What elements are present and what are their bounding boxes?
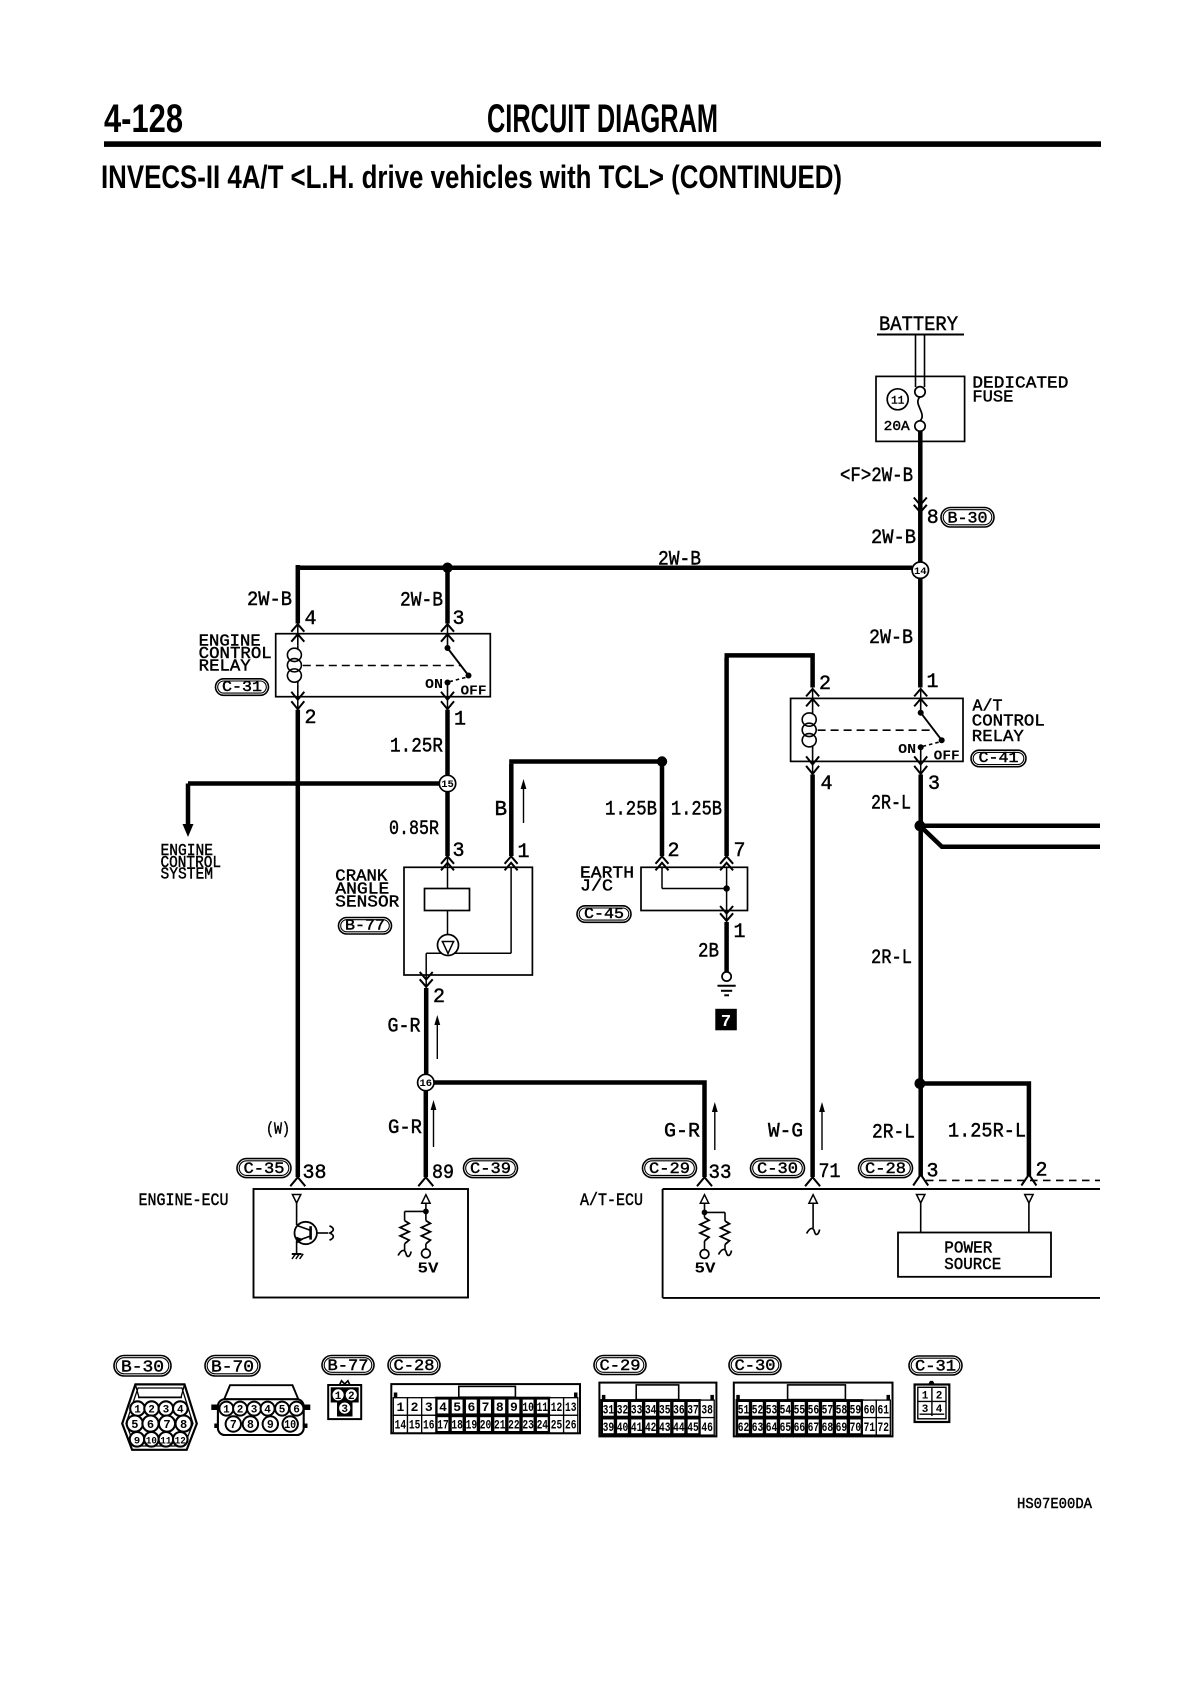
- svg-text:1: 1: [454, 709, 466, 732]
- svg-text:3: 3: [453, 608, 465, 631]
- svg-text:72: 72: [878, 1420, 890, 1435]
- svg-text:26: 26: [565, 1418, 577, 1433]
- svg-text:16: 16: [419, 1078, 432, 1090]
- svg-text:45: 45: [687, 1420, 699, 1435]
- svg-text:46: 46: [701, 1420, 713, 1435]
- svg-text:62: 62: [738, 1420, 750, 1435]
- svg-text:SOURCE: SOURCE: [944, 1256, 1001, 1275]
- svg-text:2: 2: [305, 707, 317, 730]
- svg-text:2W-B: 2W-B: [871, 527, 916, 550]
- svg-text:C-31: C-31: [915, 1358, 956, 1376]
- svg-text:9: 9: [510, 1400, 518, 1415]
- svg-text:C-31: C-31: [222, 679, 262, 696]
- svg-text:19: 19: [466, 1418, 478, 1433]
- svg-text:20: 20: [480, 1418, 492, 1433]
- svg-text:7: 7: [163, 1418, 170, 1432]
- svg-text:31: 31: [603, 1402, 615, 1417]
- svg-text:44: 44: [673, 1420, 685, 1435]
- svg-text:4: 4: [305, 608, 317, 631]
- svg-text:0.85R: 0.85R: [389, 818, 439, 841]
- svg-text:4-128: 4-128: [104, 97, 183, 141]
- svg-text:7: 7: [230, 1419, 237, 1432]
- svg-text:A/T-ECU: A/T-ECU: [580, 1191, 643, 1211]
- svg-text:B-70: B-70: [211, 1359, 254, 1378]
- svg-text:C-39: C-39: [470, 1160, 511, 1178]
- svg-text:4: 4: [821, 773, 833, 796]
- svg-text:38: 38: [701, 1402, 713, 1417]
- svg-text:15: 15: [441, 779, 454, 791]
- svg-text:15: 15: [409, 1418, 421, 1433]
- svg-text:4: 4: [264, 1405, 271, 1417]
- svg-text:33: 33: [631, 1402, 643, 1417]
- svg-text:67: 67: [808, 1420, 820, 1435]
- svg-text:C-41: C-41: [979, 750, 1019, 767]
- svg-text:OFF: OFF: [461, 684, 487, 700]
- svg-text:B-30: B-30: [121, 1359, 164, 1378]
- svg-text:ENGINE-ECU: ENGINE-ECU: [139, 1191, 229, 1211]
- svg-text:65: 65: [780, 1420, 792, 1435]
- svg-text:3: 3: [922, 1404, 929, 1416]
- svg-text:14: 14: [914, 566, 927, 578]
- svg-text:55: 55: [794, 1402, 806, 1417]
- svg-text:35: 35: [659, 1402, 671, 1417]
- svg-text:25: 25: [551, 1418, 563, 1433]
- svg-text:52: 52: [752, 1402, 764, 1417]
- svg-text:2W-B: 2W-B: [869, 627, 913, 650]
- svg-text:G-R: G-R: [388, 1016, 421, 1039]
- svg-text:C-29: C-29: [649, 1160, 690, 1178]
- svg-text:2W-B: 2W-B: [247, 589, 292, 612]
- svg-text:57: 57: [822, 1402, 834, 1417]
- svg-text:11: 11: [537, 1400, 549, 1415]
- svg-text:6: 6: [293, 1405, 300, 1417]
- svg-text:58: 58: [836, 1402, 848, 1417]
- svg-text:2: 2: [668, 840, 680, 863]
- svg-text:C-29: C-29: [600, 1357, 641, 1375]
- svg-text:FUSE: FUSE: [972, 389, 1013, 408]
- svg-text:2: 2: [819, 673, 831, 696]
- svg-text:2: 2: [1036, 1160, 1048, 1183]
- svg-text:33: 33: [709, 1162, 732, 1185]
- svg-text:11: 11: [891, 395, 905, 407]
- svg-text:3: 3: [453, 840, 465, 863]
- svg-text:66: 66: [794, 1420, 806, 1435]
- svg-text:56: 56: [808, 1402, 820, 1417]
- svg-text:B-30: B-30: [948, 510, 988, 528]
- svg-text:2: 2: [433, 986, 445, 1009]
- svg-text:6: 6: [467, 1400, 475, 1415]
- svg-text:2: 2: [348, 1391, 355, 1403]
- svg-text:(W): (W): [266, 1121, 290, 1140]
- svg-text:1.25B: 1.25B: [605, 799, 657, 822]
- svg-text:1: 1: [927, 671, 939, 694]
- svg-text:8: 8: [247, 1419, 254, 1432]
- svg-text:B: B: [495, 799, 508, 822]
- svg-text:1: 1: [922, 1390, 929, 1402]
- svg-text:63: 63: [752, 1420, 764, 1435]
- svg-text:43: 43: [659, 1420, 671, 1435]
- svg-text:41: 41: [631, 1420, 643, 1435]
- svg-text:1: 1: [734, 921, 746, 944]
- svg-text:G-R: G-R: [664, 1121, 700, 1144]
- svg-text:64: 64: [766, 1420, 778, 1435]
- svg-text:B-77: B-77: [328, 1357, 369, 1375]
- svg-text:2W-B: 2W-B: [400, 590, 443, 613]
- svg-text:2B: 2B: [698, 941, 719, 964]
- svg-text:12: 12: [551, 1400, 563, 1415]
- svg-text:89: 89: [432, 1162, 454, 1185]
- svg-text:37: 37: [687, 1402, 699, 1417]
- svg-text:1.25R: 1.25R: [390, 736, 443, 759]
- svg-text:2: 2: [237, 1405, 244, 1417]
- svg-text:<F>2W-B: <F>2W-B: [840, 465, 913, 488]
- svg-text:40: 40: [617, 1420, 629, 1435]
- svg-text:C-30: C-30: [757, 1160, 798, 1178]
- svg-text:14: 14: [395, 1418, 407, 1433]
- svg-text:5: 5: [279, 1405, 286, 1417]
- svg-text:71: 71: [864, 1420, 876, 1435]
- svg-text:B-77: B-77: [345, 918, 385, 935]
- svg-text:2R-L: 2R-L: [871, 793, 911, 816]
- svg-text:59: 59: [850, 1402, 862, 1417]
- svg-text:1: 1: [335, 1391, 342, 1403]
- svg-text:7: 7: [482, 1400, 490, 1415]
- svg-text:7: 7: [734, 840, 746, 863]
- svg-text:C-28: C-28: [865, 1160, 906, 1178]
- svg-text:G-R: G-R: [388, 1117, 422, 1140]
- svg-text:10: 10: [146, 1435, 157, 1447]
- svg-text:10: 10: [522, 1400, 534, 1415]
- svg-text:SYSTEM: SYSTEM: [161, 865, 214, 884]
- svg-text:71: 71: [819, 1161, 841, 1184]
- svg-text:CIRCUIT DIAGRAM: CIRCUIT DIAGRAM: [487, 97, 718, 141]
- svg-text:9: 9: [267, 1419, 274, 1432]
- svg-text:9: 9: [134, 1435, 140, 1447]
- svg-text:6: 6: [147, 1418, 154, 1432]
- svg-text:8: 8: [496, 1400, 504, 1415]
- svg-text:ON: ON: [425, 677, 443, 693]
- svg-text:4: 4: [936, 1404, 943, 1416]
- svg-text:1: 1: [223, 1405, 230, 1417]
- svg-text:17: 17: [437, 1418, 449, 1433]
- svg-text:OFF: OFF: [934, 748, 960, 764]
- svg-text:13: 13: [565, 1400, 577, 1415]
- svg-text:HS07E00DA: HS07E00DA: [1017, 1496, 1092, 1513]
- svg-text:36: 36: [673, 1402, 685, 1417]
- svg-text:8: 8: [927, 507, 939, 530]
- svg-text:69: 69: [836, 1420, 848, 1435]
- svg-text:5: 5: [131, 1418, 138, 1432]
- svg-text:32: 32: [617, 1402, 629, 1417]
- svg-text:SENSOR: SENSOR: [335, 894, 399, 913]
- svg-text:54: 54: [780, 1402, 792, 1417]
- svg-text:J/C: J/C: [580, 878, 613, 897]
- svg-text:C-30: C-30: [735, 1357, 776, 1375]
- svg-text:8: 8: [180, 1418, 187, 1432]
- svg-text:C-45: C-45: [584, 906, 624, 923]
- svg-text:3: 3: [425, 1400, 433, 1415]
- svg-text:4: 4: [439, 1400, 447, 1415]
- svg-text:61: 61: [878, 1402, 890, 1417]
- svg-text:20A: 20A: [884, 419, 911, 435]
- svg-text:24: 24: [537, 1418, 549, 1433]
- svg-text:2R-L: 2R-L: [872, 1122, 915, 1145]
- svg-text:1: 1: [518, 841, 530, 864]
- svg-text:3: 3: [341, 1404, 348, 1416]
- svg-text:39: 39: [603, 1420, 615, 1435]
- svg-text:51: 51: [738, 1402, 750, 1417]
- svg-text:10: 10: [284, 1419, 296, 1432]
- svg-text:12: 12: [175, 1435, 186, 1447]
- svg-text:1.25B: 1.25B: [671, 799, 722, 822]
- svg-text:22: 22: [508, 1418, 520, 1433]
- svg-text:5V: 5V: [418, 1262, 439, 1278]
- svg-text:ON: ON: [898, 742, 916, 758]
- svg-text:16: 16: [423, 1418, 435, 1433]
- svg-text:W-G: W-G: [768, 1121, 803, 1144]
- svg-text:3: 3: [928, 773, 940, 796]
- svg-text:INVECS-II 4A/T <L.H. drive veh: INVECS-II 4A/T <L.H. drive vehicles with…: [101, 159, 842, 195]
- svg-text:68: 68: [822, 1420, 834, 1435]
- svg-text:5: 5: [453, 1400, 461, 1415]
- svg-text:11: 11: [160, 1435, 171, 1447]
- svg-text:1: 1: [396, 1400, 404, 1415]
- svg-text:RELAY: RELAY: [972, 728, 1024, 747]
- svg-text:18: 18: [451, 1418, 463, 1433]
- svg-text:23: 23: [522, 1418, 534, 1433]
- svg-text:3: 3: [251, 1405, 258, 1417]
- svg-text:5V: 5V: [695, 1262, 716, 1278]
- svg-text:RELAY: RELAY: [199, 658, 251, 677]
- svg-text:2: 2: [411, 1400, 419, 1415]
- svg-text:7: 7: [721, 1013, 731, 1032]
- svg-text:34: 34: [645, 1402, 657, 1417]
- svg-text:38: 38: [303, 1162, 327, 1185]
- svg-text:21: 21: [494, 1418, 506, 1433]
- svg-text:2W-B: 2W-B: [658, 549, 701, 572]
- svg-text:70: 70: [850, 1420, 862, 1435]
- svg-text:1.25R-L: 1.25R-L: [948, 1121, 1026, 1144]
- svg-text:2R-L: 2R-L: [871, 947, 912, 970]
- svg-text:2: 2: [936, 1390, 943, 1402]
- svg-text:C-28: C-28: [394, 1357, 435, 1375]
- svg-text:60: 60: [864, 1402, 876, 1417]
- svg-text:C-35: C-35: [244, 1160, 285, 1178]
- svg-text:53: 53: [766, 1402, 778, 1417]
- svg-text:42: 42: [645, 1420, 657, 1435]
